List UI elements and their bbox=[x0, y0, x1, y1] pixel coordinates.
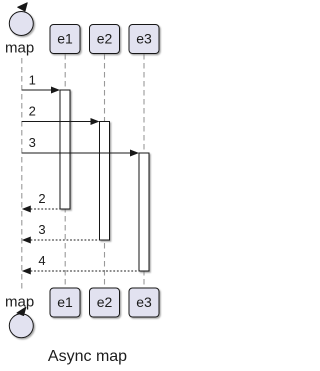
actor map control symbol bottom: circle bbox=[9, 314, 33, 338]
lifeline e3 bbox=[143, 54, 145, 288]
activation bar e2 bbox=[100, 122, 110, 241]
svg-text:e2: e2 bbox=[97, 31, 113, 47]
svg-text:Async map: Async map bbox=[48, 348, 127, 365]
participant e1 bottom bbox=[50, 288, 80, 317]
lifeline e2 bbox=[104, 54, 106, 288]
svg-text:3: 3 bbox=[38, 222, 45, 237]
svg-text:e2: e2 bbox=[97, 294, 113, 310]
actor map control symbol top: circle bbox=[9, 12, 33, 36]
svg-text:2: 2 bbox=[38, 191, 45, 206]
lifeline e1 bbox=[64, 54, 66, 288]
return message 3 arrow bbox=[31, 239, 100, 241]
svg-text:e1: e1 bbox=[57, 31, 73, 47]
svg-text:1: 1 bbox=[29, 73, 36, 88]
svg-text:e1: e1 bbox=[57, 294, 73, 310]
activation bar e3 bbox=[139, 153, 149, 271]
return message 4 arrow bbox=[31, 270, 140, 272]
message 2 arrow bbox=[22, 121, 91, 123]
svg-text:2: 2 bbox=[29, 104, 36, 119]
participant e3 bottom bbox=[129, 288, 159, 317]
message 3 arrow bbox=[22, 152, 131, 154]
actor map control symbol top: arrowhead bbox=[18, 3, 28, 11]
participant e1 top bbox=[50, 25, 80, 54]
svg-text:map: map bbox=[5, 294, 34, 311]
svg-text:map: map bbox=[5, 40, 34, 57]
activation bar e1 bbox=[60, 90, 70, 209]
participant e3 top bbox=[129, 25, 159, 54]
message 1 arrow bbox=[22, 89, 52, 91]
svg-text:4: 4 bbox=[38, 253, 45, 268]
participant e2 top bbox=[90, 25, 120, 54]
participant e2 bottom bbox=[90, 288, 120, 317]
svg-text:3: 3 bbox=[29, 135, 36, 150]
lifeline map (top segment) bbox=[21, 58, 23, 291]
actor map control symbol bottom: arrowhead bbox=[17, 307, 26, 315]
svg-text:e3: e3 bbox=[136, 31, 152, 47]
return message 2 arrow bbox=[31, 208, 61, 210]
svg-text:e3: e3 bbox=[136, 294, 152, 310]
